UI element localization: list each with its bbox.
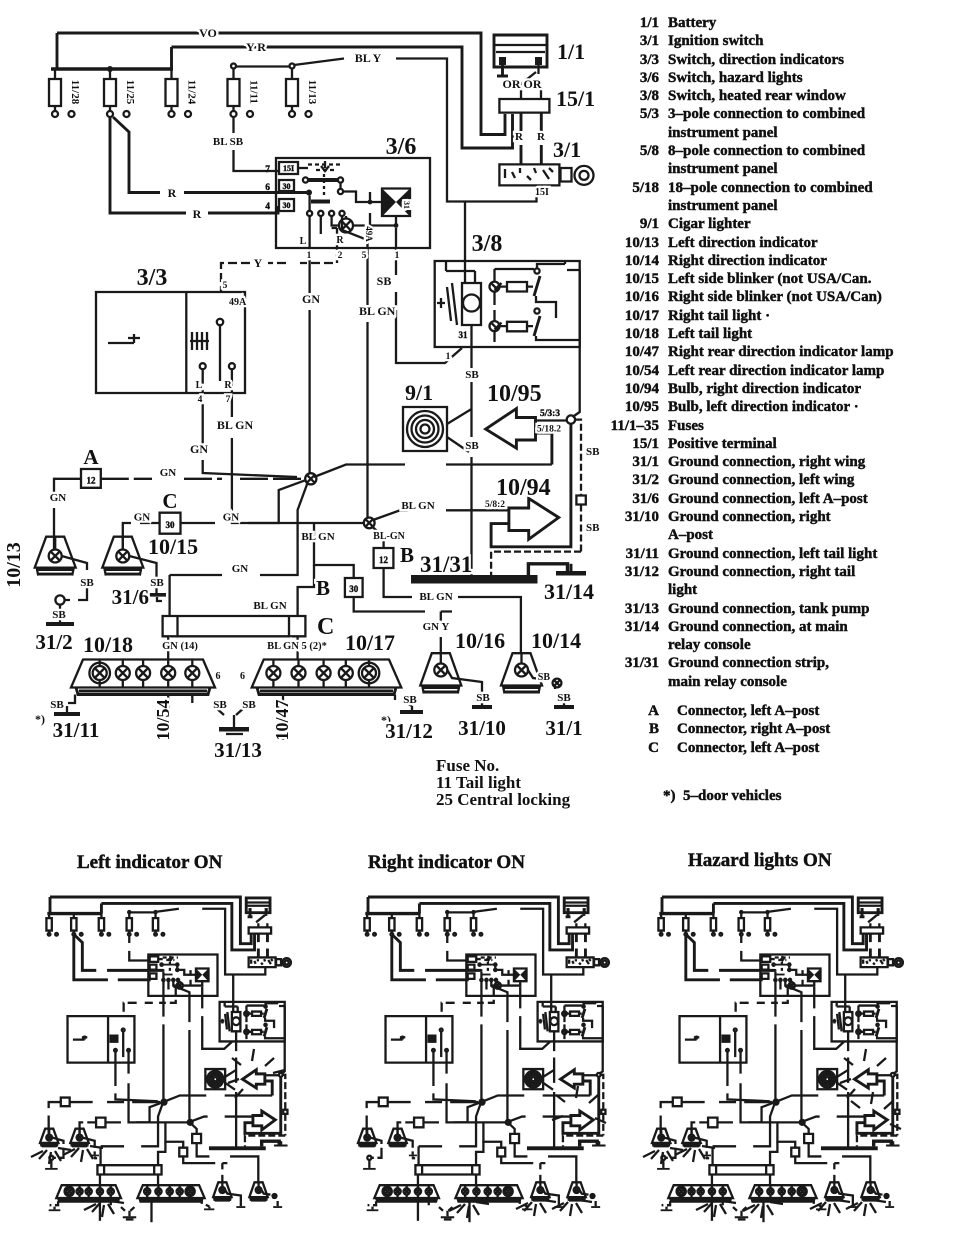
svg-text:GN: GN (232, 563, 249, 575)
svg-text:Y R: Y R (246, 40, 266, 54)
svg-text:5/18.2: 5/18.2 (537, 425, 561, 435)
svg-text:12: 12 (87, 476, 97, 486)
svg-text:BL GN: BL GN (301, 531, 334, 543)
svg-text:B: B (316, 576, 330, 600)
svg-text:31: 31 (402, 201, 411, 209)
svg-text:5: 5 (223, 281, 228, 291)
svg-text:BL GN: BL GN (419, 591, 452, 603)
svg-text:GN Y: GN Y (423, 621, 450, 633)
svg-text:3/1: 3/1 (553, 137, 581, 162)
svg-text:SB: SB (52, 609, 66, 621)
svg-text:31/14: 31/14 (544, 579, 594, 604)
svg-text:1: 1 (395, 251, 400, 261)
svg-text:10/18: 10/18 (83, 632, 133, 657)
svg-text:10/15: 10/15 (148, 534, 198, 559)
svg-text:10/16: 10/16 (455, 628, 505, 653)
svg-text:SB: SB (476, 692, 490, 704)
svg-text:1: 1 (307, 251, 312, 261)
svg-text:BL GN: BL GN (359, 304, 396, 318)
svg-text:11/25: 11/25 (124, 80, 136, 105)
svg-text:*): *) (35, 712, 45, 726)
svg-text:15/1: 15/1 (556, 86, 595, 111)
svg-text:R: R (193, 207, 202, 221)
svg-text:6: 6 (265, 183, 270, 193)
svg-text:30: 30 (349, 584, 359, 594)
svg-text:31/12: 31/12 (385, 719, 433, 743)
svg-text:15I: 15I (535, 187, 549, 198)
svg-text:B: B (400, 543, 414, 567)
svg-text:SB: SB (213, 699, 227, 711)
svg-text:SB: SB (538, 672, 551, 683)
svg-text:4: 4 (198, 395, 203, 405)
svg-text:9/1: 9/1 (405, 380, 433, 405)
svg-text:5/3:3: 5/3:3 (540, 409, 560, 419)
svg-text:SB: SB (465, 369, 479, 381)
svg-text:3/6: 3/6 (386, 134, 417, 160)
svg-text:31/2: 31/2 (35, 630, 72, 654)
svg-text:11/11: 11/11 (248, 80, 260, 104)
svg-text:7: 7 (226, 395, 231, 405)
svg-text:10/94: 10/94 (496, 475, 551, 501)
svg-text:30: 30 (283, 201, 291, 210)
svg-text:10/17: 10/17 (345, 630, 395, 655)
svg-text:L: L (300, 236, 307, 247)
svg-text:SB: SB (50, 699, 64, 711)
svg-text:BL GN: BL GN (253, 600, 286, 612)
svg-text:C: C (162, 489, 177, 513)
thumbnail: right indicator on (358, 897, 609, 1222)
svg-text:11/13: 11/13 (306, 80, 318, 105)
svg-text:GN: GN (190, 442, 208, 456)
svg-text:A: A (83, 445, 99, 469)
svg-text:GN: GN (134, 512, 151, 524)
svg-text:30: 30 (166, 520, 176, 530)
svg-text:5: 5 (362, 251, 367, 261)
svg-text:SB: SB (80, 577, 94, 589)
svg-text:2: 2 (338, 251, 343, 261)
svg-text:11/24: 11/24 (186, 80, 198, 105)
svg-text:GN (14): GN (14) (162, 641, 198, 652)
svg-text:10/14: 10/14 (531, 628, 581, 653)
svg-text:30: 30 (283, 182, 291, 191)
svg-text:6: 6 (240, 671, 245, 682)
svg-text:BL GN: BL GN (217, 418, 254, 432)
svg-text:25 Central locking: 25 Central locking (436, 790, 571, 809)
svg-text:OR OR: OR OR (503, 77, 542, 91)
svg-text:R: R (537, 131, 546, 143)
svg-text:15I: 15I (283, 164, 294, 173)
svg-text:49A: 49A (364, 226, 374, 242)
svg-text:L: L (196, 380, 203, 391)
svg-text:SB: SB (465, 440, 479, 452)
svg-text:VO: VO (199, 26, 217, 40)
svg-text:BL GN 5 (2)*: BL GN 5 (2)* (267, 641, 327, 652)
svg-text:10/47: 10/47 (272, 699, 292, 740)
svg-text:GN: GN (160, 467, 177, 479)
svg-text:10/95: 10/95 (487, 381, 542, 407)
rays left indicator lamps (thumb 1) (31, 1148, 71, 1164)
svg-text:R: R (168, 186, 177, 200)
rays hazard lamps (thumb 3) (643, 1148, 683, 1164)
svg-text:31/10: 31/10 (458, 716, 506, 740)
svg-text:BL SB: BL SB (213, 136, 244, 148)
svg-text:SB: SB (242, 699, 256, 711)
svg-text:SB: SB (377, 274, 392, 288)
svg-text:3/8: 3/8 (472, 231, 503, 257)
svg-text:10/54: 10/54 (153, 699, 173, 740)
svg-text:C: C (317, 614, 334, 640)
svg-text:R: R (224, 380, 232, 391)
svg-text:5/8:2: 5/8:2 (485, 500, 505, 510)
rays right indicator lamps (thumb 2) (449, 1202, 489, 1218)
svg-text:R: R (515, 131, 524, 143)
svg-text:1/1: 1/1 (557, 39, 585, 64)
svg-text:49A: 49A (229, 297, 247, 308)
svg-text:12: 12 (379, 555, 389, 565)
svg-text:BL-GN: BL-GN (373, 531, 405, 542)
svg-text:GN: GN (50, 492, 67, 504)
svg-text:4: 4 (265, 202, 270, 212)
svg-text:BL GN: BL GN (401, 500, 434, 512)
svg-text:BL Y: BL Y (355, 51, 382, 65)
svg-text:31/31: 31/31 (420, 552, 472, 577)
svg-text:SB: SB (150, 577, 164, 589)
svg-text:3/3: 3/3 (137, 265, 168, 291)
svg-text:GN: GN (223, 512, 240, 524)
thumbnail: left indicator on (40, 897, 291, 1222)
svg-text:SB: SB (403, 694, 417, 706)
svg-text:31: 31 (459, 330, 469, 340)
svg-text:31/6: 31/6 (112, 585, 149, 609)
svg-text:10/13: 10/13 (3, 542, 25, 588)
svg-text:11/28: 11/28 (69, 80, 81, 105)
svg-text:6: 6 (216, 671, 221, 682)
svg-text:Y: Y (254, 256, 263, 270)
svg-text:31/13: 31/13 (214, 738, 262, 762)
svg-text:31/11: 31/11 (53, 718, 100, 742)
svg-text:7: 7 (265, 165, 270, 175)
thumbnail: hazard lights on (652, 897, 903, 1222)
svg-text:31/1: 31/1 (545, 716, 582, 740)
svg-text:R: R (336, 235, 344, 246)
svg-text:SB: SB (557, 692, 571, 704)
svg-text:GN: GN (302, 292, 320, 306)
svg-text:1: 1 (446, 352, 451, 362)
